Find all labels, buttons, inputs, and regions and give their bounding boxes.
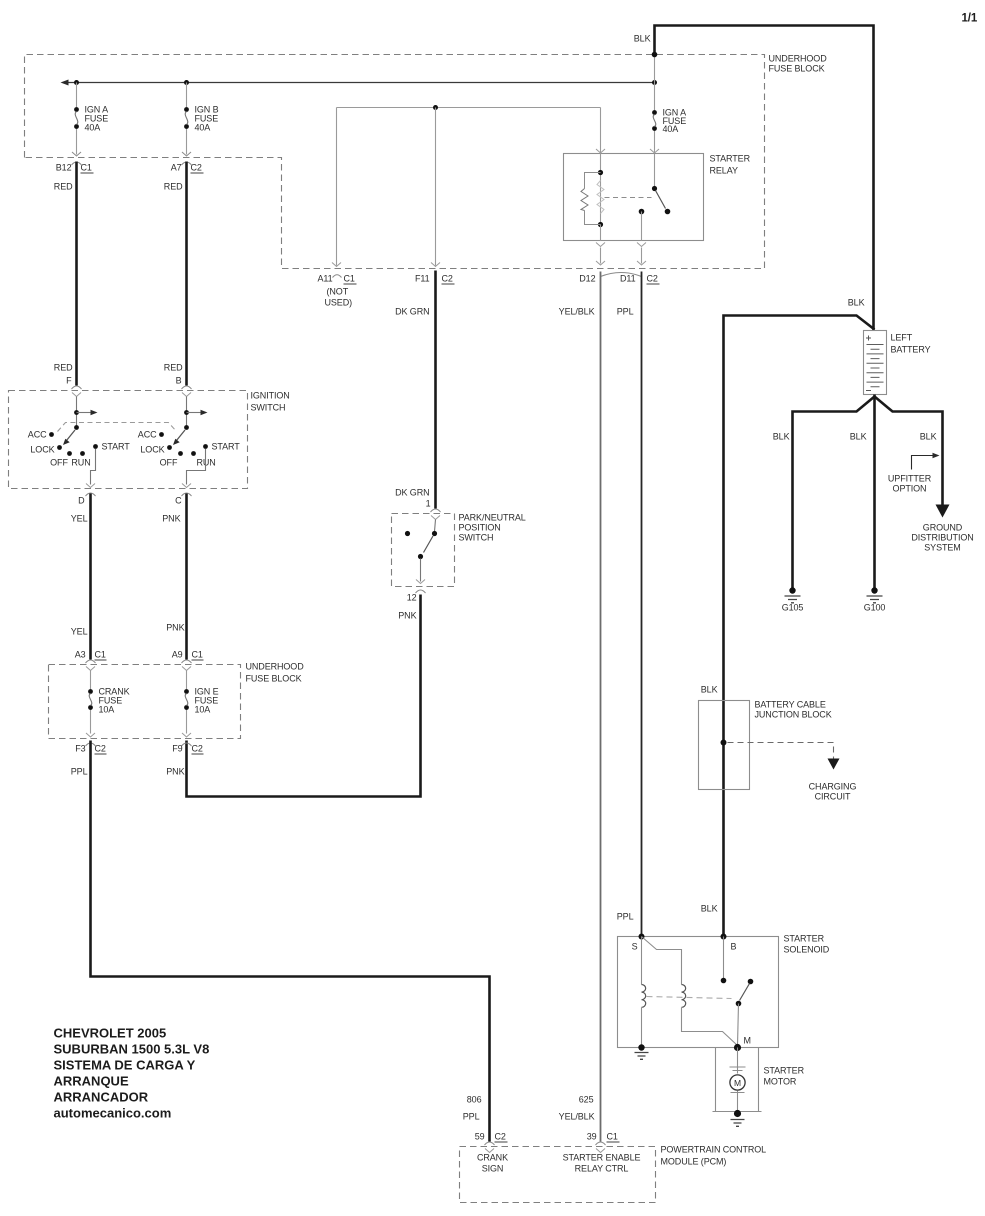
svg-text:ACC: ACC: [138, 430, 157, 440]
ignition switch dashed box: [9, 391, 248, 489]
svg-text:RELAY: RELAY: [710, 166, 738, 176]
svg-text:G100: G100: [864, 603, 886, 613]
pcm dashed box: [460, 1147, 656, 1203]
wire battery to ground distribution: [875, 397, 943, 505]
wire PNK: [185, 494, 188, 660]
wire BLK top from fuse block to battery: [655, 26, 874, 331]
svg-text:STARTER: STARTER: [764, 1066, 805, 1076]
bus left arrow: [61, 80, 69, 86]
svg-text:40A: 40A: [85, 123, 101, 133]
wire PNK from fuse to pn switch: [187, 595, 421, 797]
svg-text:A7: A7: [171, 163, 182, 173]
svg-text:F3: F3: [75, 744, 85, 754]
fuse IGN B 40A symbol: [184, 107, 189, 112]
battery plus: [866, 336, 871, 341]
starter motor ground: [737, 1091, 739, 1114]
starter relay box: [564, 154, 704, 241]
solenoid switch lever: [748, 979, 754, 985]
svg-text:PARK/NEUTRAL: PARK/NEUTRAL: [459, 513, 526, 523]
svg-text:BLK: BLK: [773, 432, 790, 442]
svg-text:C1: C1: [81, 163, 92, 173]
fuse IGN E 10A symbol: [184, 689, 189, 694]
wire A11 stub: [336, 108, 338, 266]
node M terminal: [734, 1044, 741, 1051]
svg-text:ACC: ACC: [28, 430, 47, 440]
starter motor circle M: [730, 1075, 745, 1090]
svg-text:B12: B12: [56, 163, 72, 173]
svg-text:BLK: BLK: [634, 34, 651, 44]
svg-text:OFF: OFF: [160, 458, 178, 468]
battery minus: [866, 390, 871, 392]
svg-text:806: 806: [467, 1095, 482, 1105]
svg-text:ARRANCADOR: ARRANCADOR: [54, 1090, 149, 1105]
svg-text:PNK: PNK: [398, 611, 416, 621]
wire relay coil feed: [600, 108, 602, 154]
svg-text:C2: C2: [495, 1132, 506, 1142]
wire PPL fuse to PCM: [91, 741, 490, 1142]
ground G105: [789, 587, 795, 593]
svg-text:LOCK: LOCK: [140, 445, 164, 455]
relay coil: [600, 154, 602, 225]
svg-text:START: START: [212, 442, 241, 452]
svg-text:SWITCH: SWITCH: [251, 403, 286, 413]
relay exit marks at box edge: [596, 243, 605, 247]
svg-text:FUSE BLOCK: FUSE BLOCK: [246, 674, 302, 684]
svg-text:FUSE BLOCK: FUSE BLOCK: [769, 64, 825, 74]
ignition right start wire: [187, 449, 206, 485]
ground G100: [871, 587, 877, 593]
svg-text:JUNCTION BLOCK: JUNCTION BLOCK: [755, 710, 832, 720]
svg-text:DISTRIBUTION: DISTRIBUTION: [911, 533, 973, 543]
svg-text:SYSTEM: SYSTEM: [924, 543, 960, 553]
svg-text:40A: 40A: [663, 124, 679, 134]
pn switch entry mark: [431, 509, 441, 512]
svg-text:D11: D11: [620, 274, 636, 284]
wire F11 drop: [435, 108, 437, 266]
left battery box: [864, 331, 887, 395]
svg-text:MOTOR: MOTOR: [764, 1077, 797, 1087]
svg-text:BLK: BLK: [848, 298, 865, 308]
ignition left start wire: [91, 449, 96, 485]
fuse2 entry marks: [86, 660, 96, 663]
svg-text:C2: C2: [192, 744, 203, 754]
svg-text:BLK: BLK: [701, 904, 718, 914]
fuse CRANK column: [90, 671, 92, 690]
svg-text:RED: RED: [54, 182, 73, 192]
svg-text:STARTER ENABLE: STARTER ENABLE: [563, 1153, 641, 1163]
ignition left wiper feed: [76, 397, 78, 428]
underhood fuse block (top) dashed outline: [25, 55, 765, 269]
fuse IGN A 40A symbol: [74, 107, 79, 112]
solenoid B contact: [723, 937, 725, 979]
node S terminal: [639, 934, 645, 940]
svg-text:F: F: [66, 376, 72, 386]
svg-text:A9: A9: [172, 650, 183, 660]
svg-text:PPL: PPL: [71, 767, 88, 777]
relay actuator dashed: [605, 197, 652, 199]
svg-text:M: M: [734, 1078, 741, 1088]
svg-text:B: B: [731, 942, 737, 952]
svg-text:SIGN: SIGN: [482, 1164, 504, 1174]
svg-text:RED: RED: [54, 363, 73, 373]
ignition left position dots: [49, 432, 54, 437]
wire DK GRN: [434, 271, 437, 509]
svg-text:S: S: [632, 942, 638, 952]
ignition left lever: [67, 430, 76, 441]
svg-text:BLK: BLK: [920, 432, 937, 442]
dashed charging circuit link: [728, 743, 834, 760]
svg-text:POWERTRAIN CONTROL: POWERTRAIN CONTROL: [661, 1145, 767, 1155]
svg-text:SWITCH: SWITCH: [459, 533, 494, 543]
svg-text:BATTERY: BATTERY: [891, 345, 931, 355]
fuse IGN A right column: [654, 55, 656, 111]
svg-text:BLK: BLK: [701, 685, 718, 695]
svg-text:1: 1: [426, 499, 431, 509]
underhood fuse block 2 dashed box: [49, 665, 241, 739]
wire battery to G100: [873, 395, 876, 589]
svg-text:BATTERY CABLE: BATTERY CABLE: [755, 700, 826, 710]
svg-text:YEL: YEL: [71, 627, 88, 637]
svg-text:SUBURBAN 1500 5.3L V8: SUBURBAN 1500 5.3L V8: [54, 1042, 210, 1057]
fuse CRANK 10A symbol: [88, 689, 93, 694]
connector exit B12: [72, 152, 81, 156]
wire battery to G105: [793, 397, 875, 589]
svg-text:OPTION: OPTION: [893, 484, 927, 494]
pcm entry marks: [485, 1142, 495, 1145]
svg-text:YEL: YEL: [71, 514, 88, 524]
svg-text:(NOT: (NOT: [327, 287, 349, 297]
node BLK top: [652, 52, 658, 58]
ignition left arrow: [77, 412, 93, 414]
svg-text:YEL/BLK: YEL/BLK: [559, 307, 595, 317]
svg-text:F9: F9: [172, 744, 182, 754]
svg-text:BLK: BLK: [850, 432, 867, 442]
wire YEL/BLK long: [600, 272, 602, 1142]
battery plates: [867, 345, 884, 387]
ignition entry marks: [72, 386, 82, 389]
wire RED right to ignition: [185, 162, 188, 386]
wire: feed bus: [64, 82, 655, 84]
svg-text:UNDERHOOD: UNDERHOOD: [246, 662, 305, 672]
svg-text:UPFITTER: UPFITTER: [888, 474, 932, 484]
connector C2 arc: [601, 273, 642, 277]
wire YEL: [89, 494, 92, 660]
connector C2 exit marks: [596, 261, 605, 265]
connector exit A7: [182, 152, 191, 156]
ignition right position dots: [159, 432, 164, 437]
node secondary-F11: [433, 105, 438, 110]
svg-text:D: D: [78, 496, 85, 506]
svg-text:RUN: RUN: [71, 458, 90, 468]
charging circuit arrow: [828, 759, 840, 770]
svg-text:PPL: PPL: [617, 307, 634, 317]
svg-text:DK GRN: DK GRN: [395, 307, 429, 317]
node bus-fuse2: [184, 80, 189, 85]
svg-text:IGNITION: IGNITION: [251, 391, 290, 401]
svg-text:CRANK: CRANK: [477, 1153, 508, 1163]
svg-text:59: 59: [475, 1132, 485, 1142]
fuse IGN B column: [186, 83, 188, 108]
fuse IGN A left column: [76, 83, 78, 108]
svg-text:START: START: [102, 442, 131, 452]
svg-text:C: C: [175, 496, 182, 506]
svg-text:SISTEMA DE CARGA Y: SISTEMA DE CARGA Y: [54, 1058, 196, 1073]
svg-text:C2: C2: [442, 274, 453, 284]
svg-text:C1: C1: [344, 274, 355, 284]
node bus-right: [652, 80, 657, 85]
svg-text:YEL/BLK: YEL/BLK: [559, 1112, 595, 1122]
node B terminal: [721, 934, 727, 940]
connector labels A11 C1 not used: [332, 263, 341, 267]
svg-text:PNK: PNK: [166, 767, 184, 777]
relay switch: [652, 186, 657, 191]
ignition right lever: [177, 430, 186, 441]
starter motor bracket: [713, 1048, 762, 1112]
svg-text:A3: A3: [75, 650, 86, 660]
svg-text:DK GRN: DK GRN: [395, 488, 429, 498]
svg-text:D12: D12: [579, 274, 595, 284]
svg-text:A11: A11: [317, 274, 332, 284]
wire battery left feed: [724, 316, 875, 937]
svg-text:CHARGING: CHARGING: [809, 782, 857, 792]
svg-text:C1: C1: [95, 650, 106, 660]
svg-text:B: B: [176, 376, 182, 386]
relay switch entry mark: [650, 149, 659, 153]
ignition right wiper feed: [186, 397, 188, 428]
svg-text:1/1: 1/1: [962, 13, 978, 25]
wire: secondary feed line: [337, 107, 601, 109]
fuse IGN E column: [186, 671, 188, 690]
svg-text:12: 12: [407, 593, 417, 603]
relay coil entry mark: [596, 149, 605, 153]
connector labels F11 C2: [431, 263, 440, 267]
wires relay to connector: [600, 248, 602, 264]
svg-text:POSITION: POSITION: [459, 523, 501, 533]
svg-text:USED): USED): [325, 298, 353, 308]
ground distribution arrow: [936, 505, 950, 518]
svg-text:RED: RED: [164, 363, 183, 373]
solenoid pull-in branch: [642, 937, 682, 985]
svg-text:LOCK: LOCK: [30, 445, 54, 455]
svg-text:OFF: OFF: [50, 458, 68, 468]
upfitter option arrow: [912, 456, 935, 470]
svg-text:C2: C2: [95, 744, 106, 754]
svg-text:M: M: [744, 1036, 751, 1046]
svg-text:39: 39: [587, 1132, 597, 1142]
solenoid coil ground: [638, 1044, 644, 1050]
fuse2 exit marks: [86, 733, 95, 737]
svg-text:PNK: PNK: [162, 514, 180, 524]
park/neutral position switch dashed box: [392, 514, 455, 587]
svg-text:PPL: PPL: [463, 1112, 480, 1122]
relay coil output wire: [600, 225, 602, 241]
solenoid actuator dashed: [647, 997, 732, 999]
svg-text:C2: C2: [191, 163, 202, 173]
solenoid hold-in coil: [641, 937, 643, 985]
svg-text:C2: C2: [647, 274, 658, 284]
svg-text:RUN: RUN: [197, 458, 216, 468]
svg-text:G105: G105: [782, 603, 804, 613]
battery cable junction block box: [699, 701, 750, 790]
svg-text:STARTER: STARTER: [784, 934, 825, 944]
svg-text:UNDERHOOD: UNDERHOOD: [769, 54, 828, 64]
relay parallel resistor: [585, 173, 601, 225]
svg-text:ARRANQUE: ARRANQUE: [54, 1074, 129, 1089]
svg-text:C1: C1: [192, 650, 203, 660]
svg-text:MODULE (PCM): MODULE (PCM): [661, 1157, 727, 1167]
ignition exit D mark: [86, 484, 95, 488]
svg-text:10A: 10A: [195, 705, 211, 715]
pn switch exit mark: [416, 580, 425, 584]
svg-text:CHEVROLET 2005: CHEVROLET 2005: [54, 1026, 167, 1041]
svg-text:F11: F11: [415, 274, 430, 284]
node junction tap: [721, 740, 727, 746]
wire PPL to solenoid: [641, 272, 643, 937]
svg-text:PPL: PPL: [617, 912, 634, 922]
svg-text:PNK: PNK: [166, 623, 184, 633]
svg-text:STARTER: STARTER: [710, 154, 751, 164]
ignition exit C mark: [182, 484, 191, 488]
ignition mechanical link dashed: [58, 423, 177, 432]
starter solenoid box: [618, 937, 779, 1048]
fuse IGN A 40A right symbol: [652, 110, 657, 115]
svg-text:10A: 10A: [99, 705, 115, 715]
wire RED left to ignition: [75, 162, 78, 386]
node bus-fuse1: [74, 80, 79, 85]
svg-text:automecanico.com: automecanico.com: [54, 1106, 172, 1121]
svg-text:SOLENOID: SOLENOID: [784, 945, 830, 955]
svg-text:C1: C1: [607, 1132, 618, 1142]
pn switch internals: [435, 520, 436, 532]
starter motor connection: [737, 1048, 739, 1074]
svg-text:CIRCUIT: CIRCUIT: [815, 792, 851, 802]
solenoid right coil: [682, 985, 686, 1008]
svg-text:GROUND: GROUND: [923, 523, 963, 533]
svg-text:625: 625: [579, 1095, 594, 1105]
svg-text:40A: 40A: [195, 123, 211, 133]
svg-text:RED: RED: [164, 182, 183, 192]
svg-text:LEFT: LEFT: [891, 333, 913, 343]
svg-text:RELAY CTRL: RELAY CTRL: [575, 1164, 629, 1174]
ignition right arrow: [187, 412, 203, 414]
